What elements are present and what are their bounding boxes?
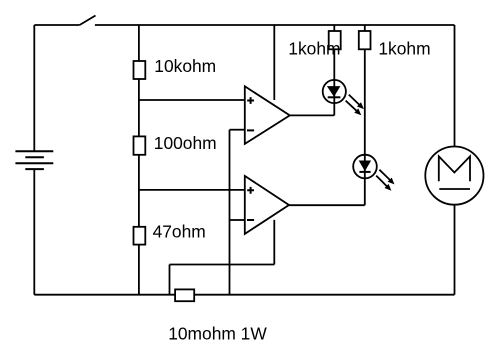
LED D1 emission arrow 1 bbox=[349, 95, 360, 106]
wire op-amp U2 noninverting input bbox=[139, 189, 245, 191]
wire U2 supply drop to rail bbox=[169, 265, 171, 295]
op-amp U1 minus sign bbox=[247, 129, 254, 131]
resistor R4 1kohm bbox=[329, 31, 341, 49]
op-amp U1 bbox=[245, 86, 290, 144]
LED D1 cathode bar bbox=[328, 96, 341, 98]
svg-text:47ohm: 47ohm bbox=[153, 221, 206, 241]
wire top rail left segment bbox=[34, 24, 79, 26]
wire chain segment R1-R2 bbox=[138, 79, 140, 136]
battery B1 plate short bottom bbox=[25, 168, 44, 170]
wire left vertical bottom (battery - to bottom rail) bbox=[33, 169, 35, 295]
battery B1 plate long top bbox=[15, 150, 53, 152]
op-amp U2 minus sign bbox=[247, 219, 254, 221]
wire bottom rail right bbox=[194, 294, 454, 296]
LED D1 triangle bbox=[327, 86, 341, 97]
resistor R3 47ohm bbox=[134, 227, 146, 245]
LED D2 cathode bar bbox=[359, 171, 370, 173]
wire through LED D2 (R5 to U2 output) bbox=[364, 49, 366, 205]
wire U2 supply horizontal run bbox=[170, 264, 275, 266]
wire U2 negative supply stub bbox=[273, 220, 275, 265]
wire motor top bbox=[454, 25, 456, 147]
wire chain bottom bbox=[138, 245, 140, 295]
LED D2 circle bbox=[353, 155, 377, 179]
wire inverting sense line (shunt to U1/U2 -) bbox=[229, 130, 231, 295]
wire U2 output bbox=[289, 204, 365, 206]
switch S1 blade bbox=[80, 16, 96, 26]
LED D1 emission arrow 2 bbox=[346, 101, 358, 112]
motor M1 circle bbox=[425, 147, 483, 205]
wire U1 positive supply stub bbox=[273, 25, 275, 100]
op-amp U2 bbox=[245, 176, 289, 234]
wire U1 output bbox=[290, 114, 335, 116]
resistor R2 100ohm bbox=[134, 136, 146, 154]
wire through LED D1 (R4 to U1 output) bbox=[333, 49, 335, 115]
wire bottom rail left bbox=[34, 294, 175, 296]
svg-text:10kohm: 10kohm bbox=[154, 56, 216, 76]
svg-text:1kohm: 1kohm bbox=[288, 39, 340, 59]
motor M1 letter M bbox=[439, 156, 470, 181]
op-amp U1 plus sign bbox=[247, 97, 254, 104]
op-amp U2 plus sign bbox=[247, 187, 254, 194]
LED D1 circle bbox=[323, 80, 346, 103]
resistor R1 10kohm bbox=[134, 61, 146, 79]
battery B1 plate short bbox=[25, 156, 44, 158]
LED D2 triangle bbox=[359, 161, 371, 172]
wire U2 inverting input stub bbox=[230, 219, 245, 221]
wire top rail right segment bbox=[95, 24, 455, 26]
resistor R6 shunt 10mohm bbox=[175, 289, 194, 301]
wire divider chain top bbox=[138, 25, 140, 61]
battery B1 plate long bbox=[15, 162, 53, 164]
wire motor bottom bbox=[454, 205, 456, 295]
svg-text:10mohm 1W: 10mohm 1W bbox=[168, 323, 267, 343]
wire U1 inverting input stub bbox=[230, 129, 245, 131]
wire left vertical top (battery + to switch) bbox=[33, 25, 35, 151]
svg-text:1kohm: 1kohm bbox=[378, 39, 430, 59]
LED D2 emission arrow 1 bbox=[379, 170, 390, 181]
motor M1 underline bbox=[439, 188, 470, 190]
wire op-amp U1 noninverting input bbox=[139, 99, 245, 101]
resistor R5 1kohm bbox=[359, 31, 371, 49]
wire chain segment R2-R3 bbox=[138, 155, 140, 227]
svg-text:100ohm: 100ohm bbox=[154, 133, 217, 153]
wire 1kohm R5 stub from rail bbox=[364, 25, 366, 31]
wire 1kohm R4 stub from rail bbox=[333, 25, 335, 31]
LED D2 emission arrow 2 bbox=[376, 176, 387, 187]
